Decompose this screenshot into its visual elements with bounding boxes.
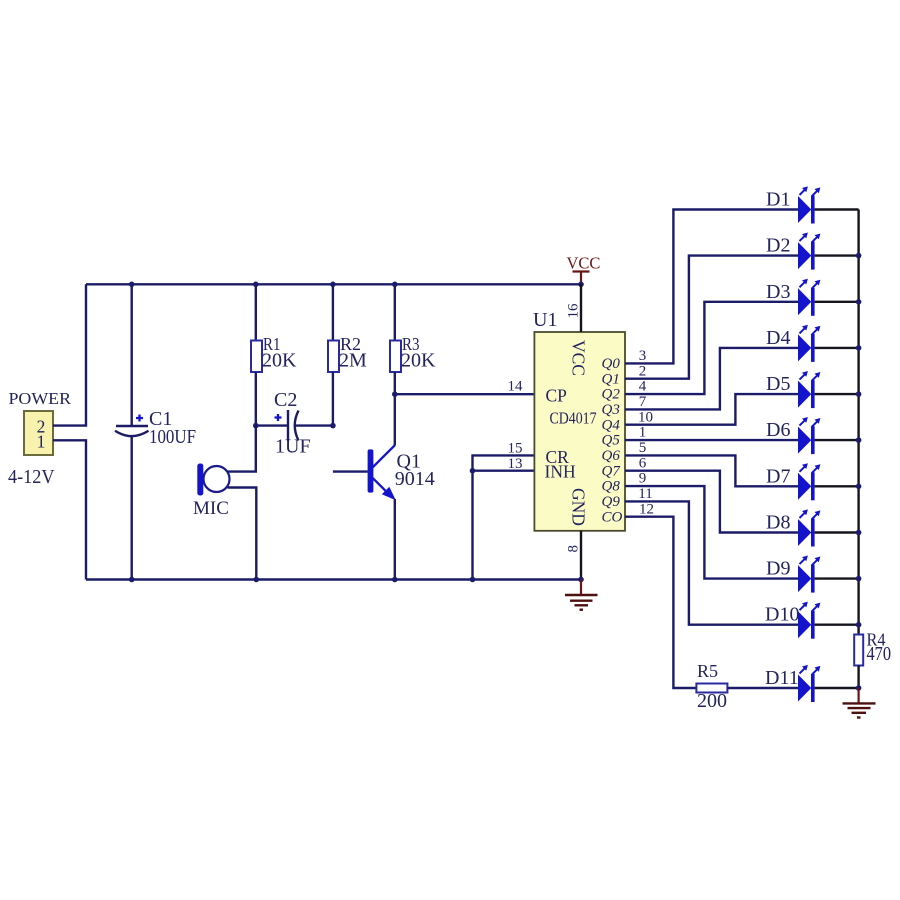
capacitor C1	[115, 284, 149, 579]
node bottom rail / pin8 / ground	[578, 577, 584, 583]
LED D3	[798, 279, 820, 316]
wire pin3 Q0 to D1	[625, 210, 798, 364]
svg-text:Q8: Q8	[602, 479, 621, 495]
svg-text:Q4: Q4	[602, 417, 621, 433]
wire right rail lower	[857, 666, 859, 689]
svg-text:14: 14	[508, 379, 524, 395]
svg-text:D6: D6	[766, 419, 790, 441]
svg-text:15: 15	[508, 441, 523, 457]
VCC supply symbol	[567, 254, 601, 285]
wire pin1 to left rail	[53, 440, 86, 579]
svg-text:Q6: Q6	[602, 448, 621, 464]
node rail / D9	[856, 576, 862, 582]
svg-text:9014: 9014	[395, 468, 435, 490]
svg-text:200: 200	[697, 690, 727, 712]
wire pin4 Q2 to D3	[625, 302, 798, 394]
svg-text:2M: 2M	[339, 350, 367, 372]
svg-text:U1: U1	[533, 309, 557, 331]
ground symbol (rail)	[843, 688, 876, 718]
wire pin6 Q7 to D8	[625, 471, 798, 533]
svg-text:D1: D1	[766, 189, 790, 211]
transistor Q1	[333, 394, 396, 579]
node top rail / vcc / pin16	[578, 282, 584, 288]
wire pin8	[580, 531, 582, 580]
wire bottom rail	[86, 578, 581, 580]
node rail / D10	[856, 622, 862, 628]
svg-text:1UF: 1UF	[275, 436, 311, 458]
power connector J1	[24, 411, 53, 455]
svg-text:20K: 20K	[262, 350, 297, 372]
svg-text:D9: D9	[766, 558, 790, 580]
svg-text:13: 13	[508, 456, 523, 472]
svg-text:100UF: 100UF	[149, 426, 196, 448]
LED D1	[798, 186, 820, 223]
LED D5	[798, 371, 820, 408]
svg-text:4-12V: 4-12V	[8, 466, 55, 488]
wire pin5 Q6 to D7	[625, 455, 798, 486]
svg-text:CD4017: CD4017	[550, 409, 597, 428]
svg-text:16: 16	[566, 303, 582, 319]
svg-text:8: 8	[566, 545, 582, 553]
svg-text:D4: D4	[766, 327, 790, 349]
wire D9 cathode to rail	[815, 577, 859, 579]
LED D7	[798, 463, 820, 500]
svg-text:Q2: Q2	[602, 387, 621, 403]
svg-text:D2: D2	[766, 235, 790, 257]
svg-text:D7: D7	[766, 465, 790, 487]
svg-text:20K: 20K	[401, 350, 436, 372]
node C2 / R2 / base	[330, 423, 336, 429]
wire pin13	[473, 470, 535, 472]
wire pin2 Q1 to D2	[625, 256, 798, 379]
IC U1 CD4017 body	[534, 332, 625, 531]
wire D4 cathode to rail	[815, 347, 859, 349]
svg-text:POWER: POWER	[9, 389, 72, 408]
wire pin15	[473, 455, 535, 579]
svg-text:Q7: Q7	[602, 463, 622, 479]
node rail / D4	[856, 345, 862, 351]
resistor R1	[251, 284, 262, 425]
svg-text:VCC: VCC	[569, 340, 589, 376]
svg-text:D5: D5	[766, 373, 790, 395]
node C2 / R1 / mic	[253, 423, 259, 429]
wire D3 cathode to rail	[815, 301, 859, 303]
wire pin14	[395, 393, 535, 395]
svg-text:9: 9	[639, 471, 647, 487]
svg-text:MIC: MIC	[193, 498, 229, 519]
svg-text:GND: GND	[569, 488, 589, 526]
wire top rail	[86, 283, 581, 285]
node pin13 / pin15 wire	[470, 468, 476, 474]
node R3 / collector / pin14	[392, 391, 398, 397]
resistor R2	[328, 284, 339, 425]
LED D11	[798, 665, 820, 702]
svg-text:D10: D10	[765, 604, 799, 626]
LED D10	[798, 602, 820, 639]
node bottom rail / emitter	[392, 577, 398, 583]
svg-text:VCC: VCC	[567, 254, 601, 273]
svg-text:Q0: Q0	[602, 356, 621, 372]
svg-text:1: 1	[37, 432, 46, 452]
svg-text:4: 4	[639, 379, 647, 395]
node rail / D8	[856, 530, 862, 536]
svg-text:470: 470	[867, 643, 892, 665]
svg-text:CO: CO	[602, 509, 623, 525]
node rail / D5	[856, 391, 862, 397]
wire D6 cathode to rail	[815, 439, 859, 441]
node rail / D11	[856, 685, 862, 691]
wire pin12 CO to R5	[625, 517, 696, 688]
svg-text:C2: C2	[274, 389, 297, 411]
wire D8 cathode to rail	[815, 531, 859, 533]
svg-text:10: 10	[638, 409, 653, 425]
wire pin9 Q8 to D9	[625, 486, 798, 578]
node top rail / R3	[392, 282, 398, 288]
node bottom rail / mic	[253, 577, 259, 583]
node rail / D6	[856, 437, 862, 443]
wire pin1 Q5 to D6	[625, 439, 798, 441]
wire D11 cathode to rail	[815, 687, 859, 689]
node top rail / R1	[253, 282, 259, 288]
svg-text:D8: D8	[766, 512, 790, 534]
microphone MIC	[197, 426, 256, 580]
resistor R3	[390, 284, 401, 394]
svg-text:Q3: Q3	[602, 402, 620, 418]
node rail / D2	[856, 253, 862, 259]
wire pin7 Q3 to D4	[625, 348, 798, 410]
svg-text:11: 11	[638, 486, 652, 502]
svg-text:Q5: Q5	[602, 433, 621, 449]
wire D5 cathode to rail	[815, 393, 859, 395]
wire D7 cathode to rail	[815, 485, 859, 487]
LED D2	[798, 233, 820, 270]
ground symbol (IC)	[565, 580, 598, 610]
svg-text:Q9: Q9	[602, 494, 621, 510]
wire pin10 Q4 to D5	[625, 394, 798, 425]
wire pin16	[580, 284, 582, 332]
LED D6	[798, 417, 820, 454]
wire D10 cathode to rail	[815, 624, 859, 626]
node bottom rail / cr-inh	[470, 577, 476, 583]
resistor R5	[696, 684, 727, 693]
LED D4	[798, 325, 820, 362]
wire D1 cathode to rail	[815, 208, 859, 210]
svg-text:2: 2	[639, 363, 647, 379]
LED D8	[798, 509, 820, 546]
resistor R4	[854, 635, 863, 666]
LED D9	[798, 556, 820, 593]
svg-text:R5: R5	[697, 661, 718, 681]
node top rail / C1	[129, 282, 135, 288]
svg-text:CP: CP	[546, 386, 568, 406]
wire D2 cathode to rail	[815, 254, 859, 256]
svg-text:1: 1	[639, 425, 647, 441]
capacitor C2	[256, 410, 333, 441]
node rail / D3	[856, 299, 862, 305]
svg-text:12: 12	[639, 501, 654, 517]
wire pin2 to left rail	[53, 284, 86, 425]
node bottom rail / C1	[129, 577, 135, 583]
svg-text:INH: INH	[545, 462, 576, 482]
wire right rail upper	[857, 210, 859, 635]
svg-text:D11: D11	[765, 667, 799, 689]
svg-text:5: 5	[639, 440, 647, 456]
svg-text:7: 7	[639, 394, 647, 410]
svg-text:3: 3	[639, 348, 647, 364]
node rail / D7	[856, 484, 862, 490]
svg-text:Q1: Q1	[602, 371, 620, 387]
wire pin11 Q9 to D10	[625, 501, 798, 624]
svg-text:6: 6	[639, 455, 647, 471]
node top rail / R2	[330, 282, 336, 288]
wire R5 to D11	[727, 687, 798, 689]
svg-text:D3: D3	[766, 281, 790, 303]
